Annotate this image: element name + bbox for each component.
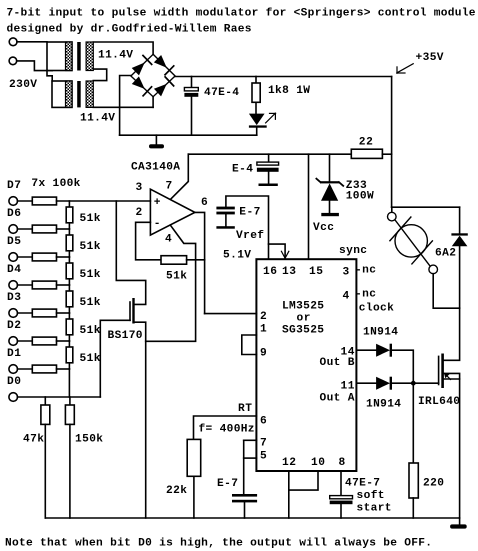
wire +35V riser xyxy=(391,77,393,208)
transformer primary lower winding xyxy=(52,81,72,107)
arrow to +35V node xyxy=(398,64,414,73)
wire pin 8 to soft start cap xyxy=(340,471,342,496)
capacitor 47E-7 soft start xyxy=(330,496,353,499)
capacitor E-7 CT xyxy=(232,494,257,497)
svg-text:Note that when bit D0 is high,: Note that when bit D0 is high, the outpu… xyxy=(5,538,432,550)
resistor 22 xyxy=(351,149,382,158)
svg-text:10: 10 xyxy=(311,457,325,469)
svg-text:2: 2 xyxy=(136,207,143,219)
svg-text:f= 400Hz: f= 400Hz xyxy=(199,424,255,436)
svg-text:clock: clock xyxy=(359,303,394,315)
svg-text:-nc: -nc xyxy=(355,265,376,277)
svg-text:7x 100k: 7x 100k xyxy=(31,178,80,190)
wire bridge bottom vertex xyxy=(120,106,154,108)
svg-text:LM3525: LM3525 xyxy=(282,301,324,313)
wire 6A2 top xyxy=(459,207,461,233)
svg-text:sync: sync xyxy=(339,245,367,257)
svg-text:47E-7: 47E-7 xyxy=(345,478,380,490)
wire D6 to ladder xyxy=(57,228,70,230)
wire ground rail xyxy=(120,134,257,136)
transistor IRL640 body arrow xyxy=(445,374,451,380)
resistor 51k ladder 6 xyxy=(68,341,70,347)
transformer secondary upper winding xyxy=(86,42,93,71)
resistor 100k D1 xyxy=(18,368,33,370)
transistor IRL640 drain xyxy=(444,308,460,360)
resistor 100k D5 xyxy=(18,256,33,258)
capacitor E-4 xyxy=(268,154,270,162)
wire +35V to actuator xyxy=(392,206,460,208)
svg-text:13: 13 xyxy=(282,266,296,278)
svg-text:3: 3 xyxy=(136,182,143,194)
resistor 51k ladder 1 xyxy=(68,201,70,207)
transistor BS170 gate bar xyxy=(129,302,131,320)
wire pin 11 xyxy=(356,382,376,384)
resistor 51k ladder 4 xyxy=(68,285,70,291)
bridge diode D-a top-left xyxy=(132,63,145,76)
svg-text:D0: D0 xyxy=(7,376,21,388)
resistor 100k D2 xyxy=(18,340,33,342)
svg-text:1N914: 1N914 xyxy=(366,399,401,411)
svg-text:11.4V: 11.4V xyxy=(80,113,115,125)
transformer primary series link xyxy=(47,71,52,82)
wire D2 to ladder xyxy=(57,340,70,342)
terminal mains N xyxy=(9,57,17,65)
actuator bottom terminal xyxy=(429,265,438,274)
svg-text:6: 6 xyxy=(260,416,267,428)
svg-text:11.4V: 11.4V xyxy=(98,50,133,62)
svg-text:51k: 51k xyxy=(80,325,101,337)
resistor 51k ladder 2 xyxy=(68,229,70,235)
svg-text:-nc: -nc xyxy=(355,289,376,301)
svg-text:6: 6 xyxy=(201,197,208,209)
svg-text:51k: 51k xyxy=(166,271,187,283)
ground symbol xyxy=(155,135,157,144)
wire D0 to BS170 gate xyxy=(100,320,130,397)
wire pins 5-7 to CT cap xyxy=(243,440,245,494)
svg-text:100W: 100W xyxy=(346,191,374,203)
wire op-amp pin 4 to ground xyxy=(146,225,196,341)
svg-text:51k: 51k xyxy=(80,353,101,365)
svg-text:12: 12 xyxy=(282,457,296,469)
svg-text:D6: D6 xyxy=(7,208,21,220)
resistor 100k D4 xyxy=(18,284,33,286)
svg-text:230V: 230V xyxy=(9,79,37,91)
bridge diamond xyxy=(131,54,175,96)
svg-text:Vref: Vref xyxy=(236,230,264,242)
transformer primary upper winding xyxy=(47,42,72,71)
transistor IRL640 gate bar xyxy=(438,356,440,384)
op-amp U1 CA3140A xyxy=(150,189,195,235)
transformer core lower xyxy=(77,81,81,107)
svg-text:or: or xyxy=(297,313,311,325)
diode 1N914 upper xyxy=(376,344,390,357)
svg-text:51k: 51k xyxy=(80,269,101,281)
wire D1 to ladder xyxy=(57,368,70,370)
diode 1N914 lower xyxy=(376,377,390,390)
svg-text:51k: 51k xyxy=(80,213,101,225)
capacitor 47E-4 xyxy=(191,77,193,88)
svg-text:7-bit input to pulse width mod: 7-bit input to pulse width modulator for… xyxy=(7,7,476,19)
actuator slash upper xyxy=(390,217,411,241)
actuator axis line xyxy=(395,220,430,266)
transistor IRL640 body tap xyxy=(444,373,460,379)
svg-text:47k: 47k xyxy=(23,434,44,446)
svg-text:22: 22 xyxy=(359,137,373,149)
svg-text:11: 11 xyxy=(341,381,355,393)
wire actuator bottom to rail xyxy=(433,274,459,309)
wire secondary bottom to bridge left vertex xyxy=(93,106,119,108)
svg-text:designed by dr.Godfried-Willem: designed by dr.Godfried-Willem Raes xyxy=(7,24,252,36)
wire D0 row xyxy=(18,396,101,398)
resistor 47k xyxy=(44,397,46,405)
transistor BS170 channel bar xyxy=(132,298,134,324)
svg-text:+35V: +35V xyxy=(416,52,444,64)
transistor BS170 source xyxy=(135,322,146,518)
wire pin 7 xyxy=(244,439,257,441)
wire mains N to transformer xyxy=(17,61,53,71)
svg-text:8: 8 xyxy=(339,457,346,469)
svg-text:5.1V: 5.1V xyxy=(223,250,251,262)
wire op-amp inverting input xyxy=(136,222,161,259)
transistor BS170 drain xyxy=(116,201,145,304)
IC U2 LM3525 body xyxy=(256,259,356,471)
svg-text:E-7: E-7 xyxy=(217,478,238,490)
resistor 1k8 1W xyxy=(255,77,257,84)
svg-text:3: 3 xyxy=(343,267,350,279)
svg-text:E-4: E-4 xyxy=(232,164,253,176)
svg-text:soft: soft xyxy=(357,490,385,502)
transformer secondary lower winding xyxy=(86,81,93,107)
ground symbol bottom xyxy=(450,524,467,528)
actuator body circle xyxy=(395,225,427,257)
actuator top terminal xyxy=(391,207,393,212)
svg-text:1N914: 1N914 xyxy=(363,327,398,339)
wire diode junction to gate xyxy=(392,382,439,384)
svg-text:51k: 51k xyxy=(80,241,101,253)
terminal mains L xyxy=(9,38,17,46)
bridge diode D-c bottom-left xyxy=(132,76,145,88)
svg-text:6A2: 6A2 xyxy=(435,248,456,260)
wire D4 to ladder xyxy=(57,284,70,286)
svg-text:2: 2 xyxy=(260,311,267,323)
wire ground rail bottom xyxy=(45,517,459,519)
wire D3 to ladder xyxy=(57,312,70,314)
svg-text:16: 16 xyxy=(263,266,277,278)
svg-text:Out B: Out B xyxy=(320,357,355,369)
svg-text:D5: D5 xyxy=(7,236,21,248)
wire ladder D1 to D0 xyxy=(68,369,70,397)
wire pin 14 diode to junction xyxy=(392,350,413,383)
wire Vcc rail xyxy=(188,153,351,155)
svg-text:CA3140A: CA3140A xyxy=(131,162,180,174)
wire pin 12 to ground xyxy=(288,471,290,518)
wire secondary top to bridge top vertex xyxy=(93,42,153,54)
wire pin 5 xyxy=(244,457,257,459)
resistor 220 xyxy=(409,463,418,498)
svg-text:15: 15 xyxy=(309,266,323,278)
svg-text:220: 220 xyxy=(423,478,444,490)
wire junction to 220 resistor xyxy=(412,383,414,463)
svg-text:7: 7 xyxy=(166,181,173,193)
zener Z33 100W xyxy=(329,154,331,181)
svg-text:-: - xyxy=(154,218,161,230)
transistor IRL640 source xyxy=(444,379,460,518)
LED D1 xyxy=(255,102,257,113)
LED arrow xyxy=(266,113,276,123)
svg-text:D7: D7 xyxy=(7,180,21,192)
svg-text:D2: D2 xyxy=(7,320,21,332)
resistor 100k D7 xyxy=(18,200,33,202)
wire pin 14 xyxy=(356,349,376,351)
transformer core upper xyxy=(77,42,81,71)
svg-text:E-7: E-7 xyxy=(239,207,260,219)
wire pins 1 and 9 link xyxy=(242,335,257,355)
resistor 51k ladder 5 xyxy=(68,313,70,319)
svg-text:1k8 1W: 1k8 1W xyxy=(268,85,310,97)
svg-text:9: 9 xyxy=(260,348,267,360)
transistor IRL640 channel bar xyxy=(441,354,444,389)
bridge diode D-b top-right xyxy=(154,55,167,68)
svg-text:5: 5 xyxy=(260,451,267,463)
svg-text:7: 7 xyxy=(260,438,267,450)
svg-text:4: 4 xyxy=(165,234,172,246)
svg-text:4: 4 xyxy=(343,291,350,303)
svg-text:RT: RT xyxy=(238,403,252,415)
resistor 100k D6 xyxy=(18,228,33,230)
wire Vcc to pin 15 xyxy=(308,154,310,259)
wire op-amp pin7 to rail xyxy=(170,154,188,199)
svg-text:1: 1 xyxy=(260,324,267,336)
svg-text:+: + xyxy=(154,197,161,209)
wire pin 10 to pin 12 xyxy=(289,471,318,490)
wire op-amp output xyxy=(195,212,205,313)
wire pin 6 to RT xyxy=(194,416,257,439)
svg-text:start: start xyxy=(357,503,392,515)
svg-text:D1: D1 xyxy=(7,348,21,360)
resistor 51k ladder 3 xyxy=(68,257,70,263)
wire D5 to ladder xyxy=(57,256,70,258)
wire mains L to transformer xyxy=(17,41,47,43)
svg-text:51k: 51k xyxy=(80,297,101,309)
bridge diode D-d bottom-right xyxy=(154,84,167,96)
svg-text:D3: D3 xyxy=(7,292,21,304)
transformer secondary series link xyxy=(93,69,106,81)
wire D7 summing node xyxy=(57,200,151,202)
actuator slash lower xyxy=(412,241,433,264)
wire bridge left vertex riser xyxy=(120,76,131,136)
resistor 22k xyxy=(187,439,201,476)
svg-text:22k: 22k xyxy=(166,485,187,497)
svg-text:Out A: Out A xyxy=(320,393,355,405)
resistor 51k feedback xyxy=(161,256,187,265)
wire op-amp out to pin 2 xyxy=(205,313,257,315)
wire bridge DC+ to +35V corner xyxy=(175,76,392,78)
wire Vref from pin 16 xyxy=(226,196,269,259)
wire Vref to pin 13 arrow xyxy=(269,244,286,257)
svg-text:IRL640: IRL640 xyxy=(418,396,460,408)
svg-text:47E-4: 47E-4 xyxy=(204,87,239,99)
svg-text:Vcc: Vcc xyxy=(313,222,334,234)
svg-text:150k: 150k xyxy=(75,434,103,446)
diode 6A2 xyxy=(451,233,467,235)
junction dot xyxy=(411,381,416,386)
svg-text:SG3525: SG3525 xyxy=(282,325,324,337)
resistor 100k D3 xyxy=(18,312,33,314)
svg-text:D4: D4 xyxy=(7,264,21,276)
resistor 150k xyxy=(69,397,71,405)
capacitor E-7 Vref xyxy=(216,207,234,210)
svg-text:BS170: BS170 xyxy=(108,330,143,342)
